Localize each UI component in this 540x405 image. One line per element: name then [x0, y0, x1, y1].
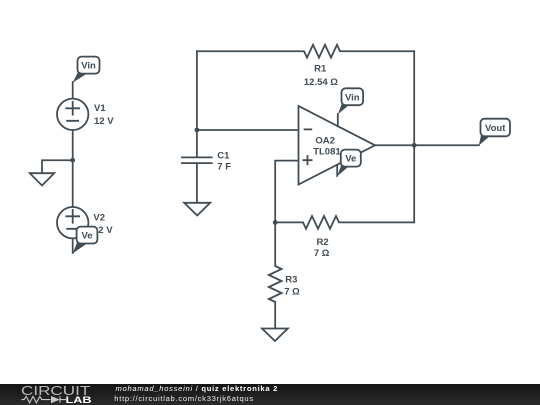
wire top horizontal left of R1: [197, 50, 304, 52]
svg-text:R2: R2: [317, 237, 329, 248]
svg-text:V1: V1: [94, 103, 106, 114]
svg-text:LAB: LAB: [66, 395, 93, 405]
svg-text:mohamad_hosseini / quiz elektr: mohamad_hosseini / quiz elektronika 2: [116, 384, 279, 393]
node flag Vout: [479, 119, 510, 146]
CircuitLab logo resistor-diode line: [22, 396, 67, 402]
wire left of R2: [275, 221, 303, 223]
svg-text:7 Ω: 7 Ω: [284, 286, 300, 297]
resistor R1: [304, 45, 340, 58]
svg-text:http://circuitlab.com/ck33rjk6: http://circuitlab.com/ck33rjk6atqus: [114, 394, 254, 403]
svg-text:TL081: TL081: [313, 147, 341, 158]
ground (R3): [262, 329, 288, 342]
wire V- supply stub: [336, 165, 338, 176]
ground (C1): [184, 203, 210, 216]
svg-text:C1: C1: [217, 151, 230, 162]
wire inverting input: [197, 129, 299, 131]
svg-text:R1: R1: [314, 63, 327, 74]
svg-text:2 V: 2 V: [98, 225, 113, 236]
resistor R3: [269, 266, 282, 302]
node flag Vin (op-amp V+): [338, 88, 363, 114]
svg-text:7 F: 7 F: [217, 162, 231, 173]
wire top horizontal right of R1: [340, 50, 414, 52]
wire top-left vertical (inverting node): [196, 51, 198, 130]
junction node between V1 and V2: [70, 158, 75, 163]
svg-text:Vin: Vin: [81, 61, 96, 72]
svg-text:12 V: 12 V: [94, 116, 114, 127]
node flag Ve (op-amp V-): [337, 150, 361, 177]
svg-text:R3: R3: [285, 275, 297, 286]
voltage source V1: [57, 99, 88, 130]
op-amp OA2: [299, 106, 376, 185]
node A junction (C1 / R1 / inverting input): [195, 128, 200, 133]
wire ground branch: [42, 160, 73, 173]
node junction (+ input / R2 / R3): [273, 220, 278, 225]
wire below R3: [274, 302, 276, 328]
svg-text:Vin: Vin: [345, 92, 360, 103]
wire right vertical (output to R2): [413, 51, 415, 222]
footer bar: [0, 384, 540, 405]
node output junction: [412, 143, 417, 148]
wire V+ supply stub: [337, 114, 339, 126]
ground (left): [30, 173, 54, 185]
wire right of R2: [339, 221, 414, 223]
wire V2 bottom stub: [72, 238, 74, 253]
svg-text:Ve: Ve: [81, 231, 92, 242]
svg-text:7 Ω: 7 Ω: [314, 248, 330, 259]
svg-text:V2: V2: [93, 213, 105, 224]
wire non-inverting input: [275, 161, 298, 266]
svg-text:12.54 Ω: 12.54 Ω: [304, 77, 338, 88]
capacitor C1: [181, 130, 213, 202]
resistor R2: [303, 216, 339, 229]
svg-text:OA2: OA2: [315, 136, 335, 147]
voltage source V2: [57, 207, 88, 238]
svg-text:Ve: Ve: [345, 154, 356, 165]
wire op-amp output: [375, 144, 479, 146]
wire V1 bottom to V2 top: [72, 130, 74, 207]
node flag Ve (left, below V2): [73, 227, 98, 254]
node flag Vin (left): [73, 57, 100, 83]
wire from Vin flag to V1 top: [72, 82, 74, 99]
svg-text:Vout: Vout: [485, 123, 506, 134]
